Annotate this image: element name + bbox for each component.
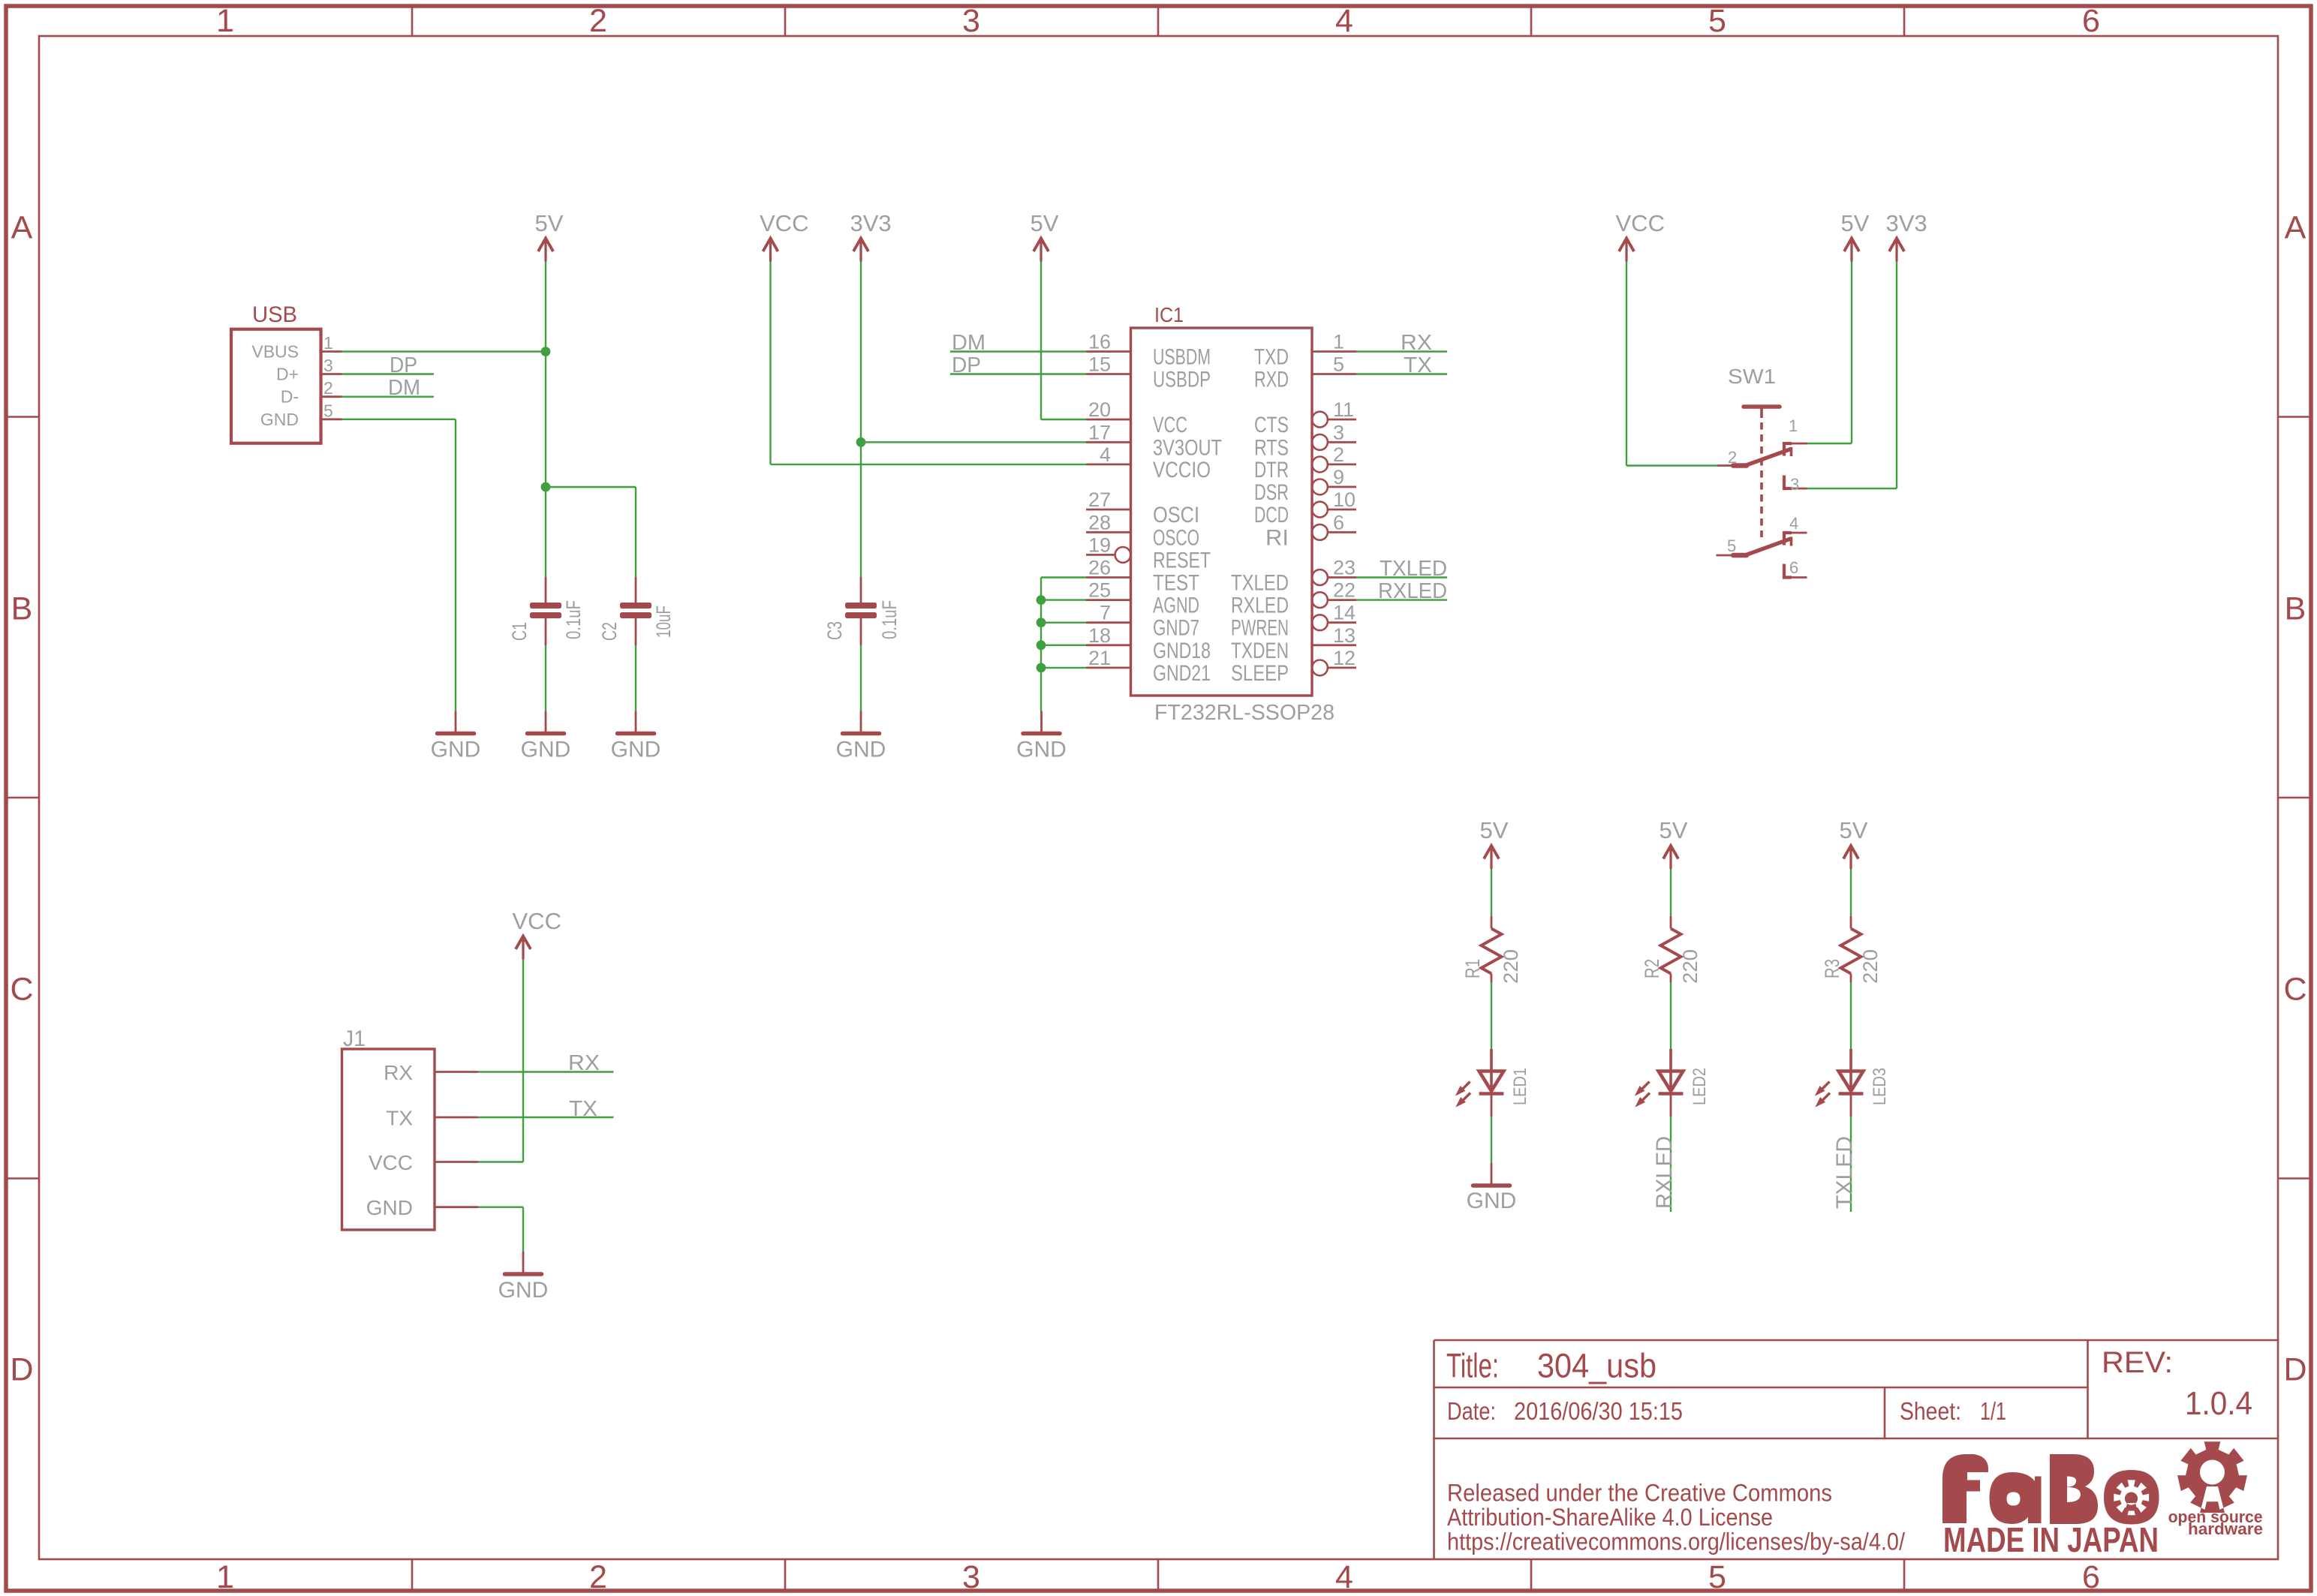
J1 pin TX [435,1117,478,1119]
svg-text:220: 220 [1679,949,1702,984]
wire net TX from IC pin5 [1356,373,1447,374]
LED LED2 [1636,1049,1711,1117]
svg-text:VBUS: VBUS [251,342,299,362]
SW1 pin 1 contact [1784,443,1792,456]
wire net RX from IC pin1 [1356,350,1447,352]
svg-text:1: 1 [216,3,234,39]
svg-text:A: A [11,210,33,246]
wire SW1 pin1 to 5V [1807,443,1852,444]
power 5V supply arrow (R3 column) [1843,846,1858,869]
wire C1 to C2 top [546,486,636,488]
svg-text:OSCI: OSCI [1153,503,1199,527]
junction gnd bus pin18 [1037,640,1046,650]
svg-text:1.0.4: 1.0.4 [2185,1385,2252,1422]
power VCC supply arrow (IC section) [763,239,778,262]
svg-text:15: 15 [1088,353,1111,376]
wire C3 bottom to ground [860,645,862,711]
wire AGND pin25 [1041,599,1086,600]
IC U1: IC1 FT232RL-SSOP28 [1086,303,1356,725]
svg-text:6: 6 [1789,558,1798,577]
svg-text:RXLED: RXLED [1378,579,1447,603]
svg-text:Title:: Title: [1446,1347,1499,1385]
wire GND7 pin7 [1041,622,1086,624]
svg-text:TXDEN: TXDEN [1231,639,1289,663]
svg-text:RXD: RXD [1254,368,1289,392]
capacitor C3 0.1uF [823,577,901,645]
svg-text:14: 14 [1333,602,1356,624]
svg-text:TX: TX [386,1107,413,1130]
svg-text:GND18: GND18 [1153,639,1211,663]
wire net RXLED from LED2 [1670,1117,1672,1212]
svg-text:REV:: REV: [2102,1346,2173,1379]
svg-text:3: 3 [962,1559,980,1595]
svg-text:5V: 5V [1841,210,1870,236]
svg-text:7: 7 [1100,602,1111,624]
FaBo logo wordmark [1942,1454,2159,1525]
wire IC gnd bus vertical [1040,578,1042,711]
svg-text:5V: 5V [1840,817,1868,843]
svg-text:D-: D- [281,387,299,407]
svg-text:5V: 5V [535,210,564,236]
svg-text:4: 4 [1335,3,1353,39]
svg-text:5V: 5V [1031,210,1059,236]
wire net TXLED from LED3 [1850,1117,1852,1212]
SW1 pin 2 common pole 1 [1717,464,1746,467]
IC1 pin 3 RTS [1328,441,1356,443]
junction gnd bus pin21 [1037,663,1046,673]
svg-text:5V: 5V [1480,817,1509,843]
svg-text:CTS: CTS [1254,413,1289,437]
svg-text:3: 3 [323,356,333,375]
svg-text:16: 16 [1088,331,1111,353]
svg-text:C: C [2283,972,2306,1008]
junction gnd bus pin7 [1037,618,1046,627]
svg-text:GND: GND [366,1196,413,1219]
wire net DM stub at USB [342,396,435,398]
wire J1 VCC net [478,1161,523,1162]
IC1 pin 28 OSCO [1086,531,1131,534]
IC1 pin 23 TXLED [1328,576,1356,579]
svg-text:RX: RX [384,1061,413,1084]
wire J1 TX net [478,1117,614,1118]
svg-text:11: 11 [1333,398,1354,421]
IC1 pin 20 VCC [1086,419,1131,421]
svg-text:0.1uF: 0.1uF [562,600,585,639]
power 5V supply arrow (R1 column) [1484,846,1499,869]
svg-text:1: 1 [323,333,333,353]
wire J1 GND net [478,1206,523,1207]
wire VCC to IC VCCIO pin4 [769,262,771,464]
svg-text:21: 21 [1088,647,1111,669]
IC1 pin 7 GND7 [1086,621,1131,624]
svg-text:IC1: IC1 [1154,303,1184,326]
svg-text:OSCO: OSCO [1153,525,1199,550]
junction on 5V at C1 branch [541,482,551,492]
svg-text:GND: GND [498,1278,549,1303]
svg-text:6: 6 [1333,511,1344,534]
capacitor C1 0.1uF [508,577,585,645]
svg-text:TXLED: TXLED [1231,571,1289,596]
svg-text:2: 2 [1333,443,1344,466]
svg-text:https://creativecommons.org/li: https://creativecommons.org/licenses/by-… [1447,1528,1905,1555]
svg-text:2: 2 [589,3,607,39]
svg-text:TX: TX [1404,353,1432,377]
svg-text:RESET: RESET [1153,548,1211,573]
capacitor C2 10uF [598,577,675,645]
svg-text:RXLED: RXLED [1231,594,1289,618]
svg-text:2: 2 [323,378,333,398]
svg-text:5: 5 [1708,1559,1726,1595]
power 5V supply arrow (R2 column) [1663,846,1678,869]
wire net DP stub at USB [342,373,435,374]
svg-text:6: 6 [2082,3,2100,39]
J1 pin GND [435,1206,478,1208]
IC1 pin 25 AGND [1086,599,1131,601]
svg-text:USBDP: USBDP [1153,368,1211,392]
svg-text:C3: C3 [823,621,846,640]
svg-text:USBDM: USBDM [1153,345,1211,370]
svg-text:VCC: VCC [369,1151,413,1174]
SW1 pin 6 contact [1784,564,1792,578]
IC1 pin 14 PWREN [1328,621,1356,624]
svg-text:10uF: 10uF [652,606,675,638]
power 5V supply arrow (IC VCC pin) [1034,239,1049,262]
svg-text:DTR: DTR [1254,458,1289,482]
svg-text:VCC: VCC [513,908,561,934]
IC1 pin 1 TXD [1312,350,1356,353]
svg-text:LED3: LED3 [1870,1068,1890,1105]
svg-text:26: 26 [1088,557,1111,579]
power VCC supply arrow (switch) [1619,239,1634,262]
svg-text:1: 1 [1333,331,1344,353]
IC1 pin 2 DTR [1328,464,1356,466]
svg-text:R1: R1 [1461,959,1484,978]
svg-text:Sheet:: Sheet: [1900,1397,1961,1425]
IC1 pin 21 GND21 [1086,667,1131,669]
svg-text:TXD: TXD [1254,345,1289,370]
ground symbol under USB GND wire [438,711,474,734]
wire R1 to LED1 [1491,982,1492,1049]
svg-text:5: 5 [1333,353,1344,376]
wire R2 to LED2 [1670,982,1672,1049]
IC1 pin 19 RESET [1086,554,1115,556]
svg-text:VCC: VCC [760,210,808,236]
power VCC supply arrow (J1) [516,936,531,960]
svg-text:17: 17 [1088,421,1111,443]
svg-text:3: 3 [1790,475,1799,494]
svg-text:2016/06/30 15:15: 2016/06/30 15:15 [1514,1397,1683,1425]
svg-text:VCC: VCC [1616,210,1665,236]
svg-text:GND: GND [836,738,886,762]
svg-text:19: 19 [1088,534,1111,556]
svg-text:R3: R3 [1821,959,1843,978]
IC1 pin 9 DSR [1328,486,1356,488]
ground symbol under C3 [843,711,880,734]
resistor R2 220 [1641,916,1702,984]
title block [1434,1340,2279,1559]
connector J1 [342,1026,479,1230]
LED LED3 [1816,1049,1891,1117]
wire VCC to SW1 pin2 [1626,262,1627,466]
svg-text:D: D [10,1352,33,1388]
wire net DM to IC pin16 [950,350,1086,352]
IC1 pin 18 GND18 [1086,644,1131,646]
wire net RXLED from IC pin22 [1356,599,1447,600]
junction gnd bus pin25 [1037,595,1046,605]
svg-text:J1: J1 [343,1026,366,1051]
svg-text:C1: C1 [508,622,531,641]
svg-text:LED1: LED1 [1510,1068,1530,1105]
svg-text:RTS: RTS [1254,435,1289,460]
IC1 pin 17 3V3OUT [1086,441,1131,443]
svg-text:GND: GND [521,738,571,762]
svg-text:TX: TX [569,1097,597,1121]
svg-text:5: 5 [1708,3,1726,39]
svg-text:2: 2 [589,1559,607,1595]
svg-text:SLEEP: SLEEP [1231,661,1289,686]
svg-text:D: D [2283,1352,2306,1388]
svg-text:22: 22 [1333,579,1356,602]
svg-text:20: 20 [1088,398,1111,421]
svg-text:3V3: 3V3 [1886,210,1927,236]
svg-text:1: 1 [1789,416,1798,435]
svg-text:Released under the Creative Co: Released under the Creative Commons [1447,1480,1832,1507]
ground symbol under C2 [618,711,654,734]
svg-text:1: 1 [216,1559,234,1595]
svg-text:6: 6 [2082,1559,2100,1595]
svg-text:DSR: DSR [1254,480,1289,505]
svg-text:TXLED: TXLED [1380,557,1447,581]
svg-text:RX: RX [568,1051,600,1075]
svg-text:25: 25 [1088,579,1111,602]
svg-text:VCCIO: VCCIO [1153,458,1211,482]
wire IC TEST pin26 to gnd bus [1041,576,1086,578]
ground symbol under C1 [528,711,564,734]
svg-text:DP: DP [390,353,417,377]
junction 3V3 / 3V3OUT [856,437,866,447]
IC1 pin 13 TXDEN [1312,644,1356,646]
switch SW1 DPDT slide switch [1717,365,1807,578]
svg-text:GND21: GND21 [1153,661,1211,686]
svg-text:4: 4 [1100,443,1111,466]
svg-text:D+: D+ [276,365,299,384]
open source hardware gear logo [2177,1441,2247,1513]
IC1 pin 11 CTS [1328,419,1356,421]
svg-text:GND: GND [611,738,661,762]
svg-text:USB: USB [252,302,297,327]
IC1 pin 22 RXLED [1328,599,1356,601]
svg-text:GND: GND [1016,738,1067,762]
svg-text:B: B [11,591,33,627]
svg-text:3V3: 3V3 [850,210,892,236]
wire C2 top drop [635,487,636,577]
IC1 pin 12 SLEEP [1328,667,1356,669]
svg-text:GND: GND [260,410,299,429]
svg-text:RX: RX [1401,331,1432,355]
svg-text:AGND: AGND [1153,594,1199,618]
svg-text:TXLED: TXLED [1832,1136,1857,1209]
wire J1 RX net [478,1071,614,1072]
svg-text:PWREN: PWREN [1231,616,1289,641]
IC1 pin 15 USBDP [1086,373,1131,375]
svg-text:GND: GND [1467,1189,1517,1213]
IC1 pin 27 OSCI [1086,509,1131,511]
IC1 pin 4 VCCIO [1086,464,1131,466]
power 5V supply arrow (switch) [1844,239,1859,262]
svg-text:0.1uF: 0.1uF [878,600,901,639]
resistor R1 220 [1461,916,1522,984]
wire C1 bottom to ground [545,645,546,711]
svg-text:3: 3 [1333,421,1344,443]
svg-text:LED2: LED2 [1690,1068,1710,1105]
svg-text:TEST: TEST [1153,571,1199,596]
svg-text:VCC: VCC [1153,413,1187,437]
svg-text:MADE IN JAPAN: MADE IN JAPAN [1943,1520,2159,1559]
resistor R3 220 [1821,916,1882,984]
svg-text:3: 3 [962,3,980,39]
svg-text:GND7: GND7 [1153,616,1199,641]
svg-text:10: 10 [1333,488,1356,511]
svg-text:Date:: Date: [1447,1397,1496,1425]
svg-text:28: 28 [1088,511,1111,534]
svg-text:4: 4 [1335,1559,1353,1595]
power 3V3 supply arrow (IC section) [853,239,868,262]
wire R3 to LED3 [1850,982,1852,1049]
wire 5V to R1 [1491,869,1492,916]
svg-text:5: 5 [1727,537,1736,555]
IC1 pin 16 USBDM [1086,350,1131,353]
wire net TXLED from IC pin23 [1356,576,1447,578]
IC1 pin 10 DCD [1328,509,1356,511]
svg-text:GND: GND [431,738,481,762]
svg-text:Attribution-ShareAlike 4.0 Lic: Attribution-ShareAlike 4.0 License [1447,1504,1773,1531]
SW1 pin 5 common pole 2 [1717,555,1747,557]
junction on 5V at VBUS [541,347,551,356]
wire GND18 pin18 [1041,645,1086,646]
svg-text:27: 27 [1088,488,1111,511]
wire net 5V vertical from arrow through VBUS to C1 [545,262,546,578]
IC1 pin 26 TEST [1086,576,1131,579]
svg-text:18: 18 [1088,624,1111,647]
wire LED1 cathode to ground [1491,1117,1492,1163]
svg-text:C2: C2 [598,622,621,641]
svg-text:23: 23 [1333,557,1356,579]
wire C2 bottom to ground [635,645,636,711]
svg-text:DP: DP [952,353,981,377]
svg-text:4: 4 [1789,514,1798,533]
svg-text:220: 220 [1859,949,1882,984]
wire 5V to R2 [1670,869,1672,916]
IC1 pin 6 RI [1328,531,1356,534]
svg-text:A: A [2285,210,2306,246]
SW1 pin 3 contact [1784,476,1792,489]
wire 5V to R3 [1850,869,1852,916]
svg-text:SW1: SW1 [1728,365,1776,388]
svg-text:DM: DM [952,331,985,355]
svg-text:9: 9 [1333,466,1344,488]
wire net DP to IC pin15 [950,373,1086,374]
wire USB GND down to ground [455,419,456,711]
svg-text:13: 13 [1333,624,1356,647]
svg-text:R2: R2 [1641,959,1663,978]
J1 pin VCC [435,1161,478,1163]
IC1 pin 5 RXD [1312,373,1356,375]
svg-text:5: 5 [323,401,333,420]
LED LED1 [1457,1049,1531,1117]
svg-text:hardware: hardware [2188,1519,2263,1538]
ground symbol under J1 [505,1252,542,1274]
svg-text:FT232RL-SSOP28: FT232RL-SSOP28 [1154,701,1335,725]
svg-text:12: 12 [1333,647,1356,669]
svg-text:3V3OUT: 3V3OUT [1153,435,1222,460]
wire USB GND pin to corner [342,419,456,420]
J1 pin RX [435,1071,478,1073]
svg-text:RXLED: RXLED [1652,1136,1677,1209]
wire 5V to IC VCC pin20 [1040,262,1042,420]
power 5V supply arrow (USB section) [538,239,553,262]
USB connector [231,302,342,443]
svg-text:DM: DM [388,376,420,400]
svg-text:304_usb: 304_usb [1537,1347,1657,1385]
ground symbol under LED1 [1473,1163,1510,1186]
SW1 pin 4 contact [1784,533,1792,546]
power 3V3 supply arrow (switch) [1889,239,1904,262]
ground symbol under IC gnd bus [1023,711,1060,734]
svg-text:220: 220 [1500,949,1522,984]
wire VBUS pin1 to 5V net [342,350,546,352]
svg-text:DCD: DCD [1254,503,1289,527]
wire SW1 pin3 to 3V3 [1807,488,1897,489]
svg-text:5V: 5V [1660,817,1688,843]
svg-text:RI: RI [1265,525,1289,550]
wire 3V3 vertical to C3 [860,262,862,578]
wire 3V3 to IC 3V3OUT pin17 [861,441,1086,443]
svg-text:1/1: 1/1 [1980,1397,2006,1425]
svg-text:2: 2 [1728,448,1737,467]
svg-text:B: B [2285,591,2306,627]
wire GND21 pin21 [1041,667,1086,669]
svg-text:C: C [10,972,33,1008]
